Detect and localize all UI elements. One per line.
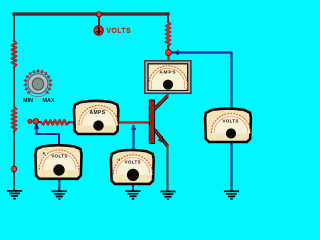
resistor R1 [12,41,17,67]
wire left rail upper [13,14,15,41]
test point probe icon [94,26,103,35]
ground (microvoltmeter) [125,190,140,200]
transistor Q1 base bar [149,100,154,144]
wire resistor R4 to left ammeter [69,121,76,123]
node C terminal dot [28,119,32,123]
wire emitter to ground [167,145,169,191]
transistor Q1 emitter lead with arrow [155,130,168,147]
svg-text:A: A [43,152,46,156]
resistor R2 [12,107,17,131]
potentiometer dial ticks [23,69,52,97]
meter: microvoltmeter VOLTS [111,150,154,184]
wire microvoltmeter to ground [132,182,134,190]
svg-text:VOLTS: VOLTS [223,118,239,123]
wire test point stub [98,14,100,26]
ground (emitter) [160,191,175,200]
svg-text:MAX: MAX [43,98,55,104]
wire base: left ammeter to transistor [117,121,150,123]
wire voltmeter 2 to ground [231,141,233,190]
ground (voltmeter 1) [52,190,67,200]
meter: left ammeter AMPS [74,101,118,134]
node B junction dot [165,49,171,55]
wire probe 3: node B to voltmeter 2 [173,53,232,111]
wire voltmeter 1 to ground [58,177,60,190]
wire resistor R3 to node B [167,46,170,55]
node D junction dot on left rail [11,166,17,172]
node A junction dot (test point on top rail) [96,12,101,17]
probe arrow 2 [131,124,136,129]
meter: collector ammeter AMPS [145,61,191,94]
svg-text:AMPS: AMPS [89,110,105,116]
svg-text:VOLTS: VOLTS [125,160,141,165]
wire left rail lower to ground [13,131,15,190]
wire resistor R4 lead left [36,121,42,124]
svg-text:VOLTS: VOLTS [106,28,131,35]
wire right drop from top rail [167,14,169,22]
svg-text:u: u [118,158,120,162]
meter: voltmeter 1 VOLTS [35,145,81,179]
wire ammeter bottom to collector [154,92,168,110]
wire left rail middle [13,67,15,107]
wire probe 2: base node to microvoltmeter [133,126,135,152]
potentiometer body [28,74,48,94]
node C junction dot [33,119,39,125]
wire top supply rail [14,13,168,16]
probe arrow 3 [173,50,178,55]
resistor R4 [41,120,69,125]
potentiometer knob [32,78,43,90]
probe arrow 1 [34,123,39,128]
transistor Q1 collector lead [154,96,168,110]
resistor R3 [166,22,171,46]
svg-text:AMPS: AMPS [159,70,176,76]
wire probe 1: node C to voltmeter 1 [37,125,60,147]
wire node B to ammeter top [168,52,170,62]
meter: voltmeter 2 VOLTS [205,109,251,142]
ground (left rail) [7,190,22,200]
ground (voltmeter 2) [224,190,239,200]
label VOLTS (test point) [106,27,131,35]
svg-text:MIN: MIN [23,98,33,104]
svg-text:VOLTS: VOLTS [51,154,67,159]
